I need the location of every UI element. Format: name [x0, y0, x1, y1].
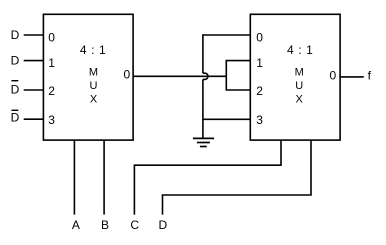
svg-text:D: D: [11, 54, 20, 68]
wire ground net vertical upper: [202, 34, 204, 73]
svg-text:3: 3: [256, 113, 263, 127]
overbar of D (pin 3): [11, 109, 18, 111]
svg-text:X: X: [296, 94, 304, 106]
svg-text:M: M: [89, 67, 98, 79]
svg-text:0: 0: [256, 31, 263, 45]
wire ground net vertical lower: [202, 79, 204, 137]
ground: [193, 138, 214, 146]
svg-text:2: 2: [256, 84, 263, 98]
wire U2 select C: [134, 140, 281, 215]
svg-text:M: M: [295, 67, 304, 79]
wire U2 pin 3 to ground net: [203, 118, 250, 120]
svg-text:B: B: [101, 218, 109, 232]
wire U1 select A: [73, 140, 75, 215]
wire U2 output to f: [340, 76, 364, 78]
wire U1 output to U2 pins 1-2 tie: [133, 75, 226, 77]
svg-text:0: 0: [123, 68, 130, 82]
svg-text:0: 0: [329, 68, 336, 82]
mux U1 label MUX: [89, 67, 98, 106]
svg-text:U: U: [90, 80, 98, 92]
svg-text:A: A: [72, 218, 80, 232]
svg-text:3: 3: [48, 113, 55, 127]
svg-text:X: X: [90, 94, 98, 106]
svg-text:U: U: [295, 80, 303, 92]
mux U1 body: [43, 14, 133, 140]
wire D-bar to U1 pin 2: [24, 89, 44, 91]
svg-text:C: C: [130, 218, 139, 232]
svg-text:D: D: [158, 218, 167, 232]
svg-text:D: D: [11, 28, 20, 42]
svg-text:0: 0: [48, 31, 55, 45]
svg-text:D: D: [11, 83, 20, 97]
overbar of D (pin 2): [11, 80, 18, 82]
wire D-bar to U1 pin 3: [24, 118, 44, 120]
wire tie U2 pins 1-2: [226, 61, 250, 90]
svg-text:2: 2: [48, 84, 55, 98]
wire D to U1 pin 0: [24, 34, 44, 36]
wire U2 select D: [163, 140, 312, 215]
wire hop over U1 output: [203, 73, 208, 79]
mux U2 label MUX: [295, 67, 304, 106]
svg-text:4 : 1: 4 : 1: [80, 43, 106, 57]
wire U2 pin 0 to ground net: [203, 34, 250, 36]
svg-text:1: 1: [48, 56, 55, 70]
wire U1 select B: [103, 140, 105, 215]
svg-text:4 : 1: 4 : 1: [287, 43, 313, 57]
svg-text:1: 1: [256, 56, 263, 70]
mux U2 body: [250, 14, 340, 140]
svg-text:D: D: [11, 111, 20, 125]
wire D to U1 pin 1: [24, 60, 44, 62]
